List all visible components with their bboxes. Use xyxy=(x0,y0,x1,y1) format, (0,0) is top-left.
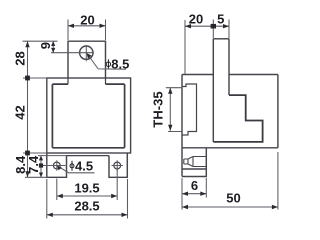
tab hole crosshair xyxy=(51,45,94,61)
right ear hole xyxy=(114,162,121,169)
svg-text:20: 20 xyxy=(189,12,203,27)
leader phi4.5 xyxy=(58,166,95,173)
svg-text:50: 50 xyxy=(226,191,240,206)
column right edge xyxy=(228,39,230,95)
dim 20 top (tab width) xyxy=(68,20,106,41)
svg-text:9: 9 xyxy=(38,42,53,49)
dim 9 (hole center from top) xyxy=(23,41,58,53)
body outer rectangle xyxy=(47,78,131,153)
tab hole circle xyxy=(80,46,93,59)
column left edge down to staircase bottom xyxy=(212,39,214,142)
left ear hole crosshair xyxy=(41,160,66,170)
mounting tab outline xyxy=(68,41,106,78)
DIN rail profile xyxy=(182,84,197,135)
right ear xyxy=(109,153,127,177)
svg-text:6: 6 xyxy=(191,178,198,193)
svg-text:8.5: 8.5 xyxy=(111,56,129,71)
outer right edge xyxy=(277,75,279,148)
label phi8.5 xyxy=(106,59,110,68)
svg-text:28.5: 28.5 xyxy=(74,199,99,214)
top shelf left xyxy=(182,74,213,76)
label phi4.5 xyxy=(70,161,74,171)
outer left edge xyxy=(181,75,183,177)
right ear hole crosshair xyxy=(112,160,124,170)
dim 20/5 top right xyxy=(185,20,229,75)
dim 50 xyxy=(182,152,278,210)
bottom protrusion xyxy=(182,148,206,177)
svg-text:4.5: 4.5 xyxy=(75,158,93,173)
svg-text:5: 5 xyxy=(217,12,224,27)
svg-text:19.5: 19.5 xyxy=(74,181,99,196)
svg-text:20: 20 xyxy=(80,12,94,27)
left ear hole xyxy=(53,162,60,169)
inner staircase xyxy=(213,95,262,142)
top shelf right xyxy=(229,74,278,76)
dim 19.5 xyxy=(57,167,117,200)
body inner window (core) xyxy=(52,78,124,148)
dim TH-35 xyxy=(166,88,183,132)
dim 7.4 xyxy=(38,156,67,178)
dim 28.5 xyxy=(47,179,128,219)
dim 6 xyxy=(182,178,206,198)
top column xyxy=(213,38,229,40)
svg-text:28: 28 xyxy=(13,51,28,65)
svg-text:7.4: 7.4 xyxy=(26,155,41,174)
svg-text:TH-35: TH-35 xyxy=(151,91,166,127)
latch detail xyxy=(184,157,207,167)
bottom edge xyxy=(182,147,278,149)
dim column 28/42/8.4 vertical line xyxy=(23,41,47,177)
bottom recess line xyxy=(67,155,110,157)
leader phi8.5 xyxy=(88,55,126,69)
left ear xyxy=(47,153,67,177)
svg-text:42: 42 xyxy=(13,105,28,119)
